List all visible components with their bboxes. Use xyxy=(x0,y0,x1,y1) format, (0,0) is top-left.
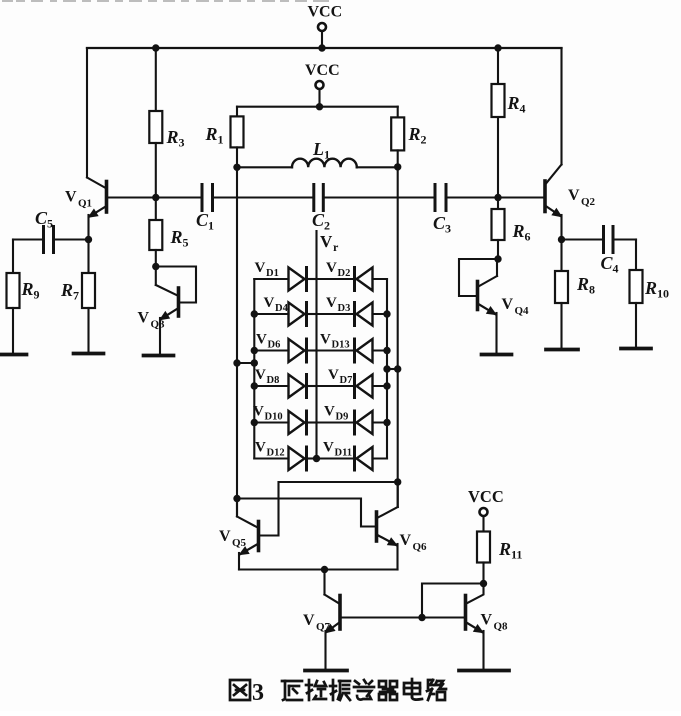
diode VD3 xyxy=(317,295,388,326)
diode VD12 xyxy=(254,440,316,471)
wire top supply rail xyxy=(87,47,562,49)
node R1 bottom junction xyxy=(233,164,240,171)
svg-text:Q6: Q6 xyxy=(413,541,428,553)
resistor R6 xyxy=(492,198,531,260)
diode VD9 xyxy=(317,404,388,435)
svg-text:V: V xyxy=(324,404,335,420)
svg-text:V: V xyxy=(320,332,331,348)
wire Vr control line xyxy=(317,231,340,459)
svg-text:V: V xyxy=(255,367,266,383)
wire label VQ7 xyxy=(303,612,331,633)
ground VQ8 xyxy=(459,669,509,673)
ground R7 xyxy=(74,352,104,356)
svg-text:V: V xyxy=(326,260,337,276)
svg-text:D1: D1 xyxy=(266,268,279,279)
VCC supply terminal 1 xyxy=(308,4,343,49)
svg-text:D12: D12 xyxy=(267,448,285,459)
diode VD1 xyxy=(254,260,316,291)
diode VD4 xyxy=(254,295,316,326)
resistor R2 xyxy=(391,107,426,151)
svg-text:V: V xyxy=(568,187,580,204)
svg-text:Q1: Q1 xyxy=(78,198,92,210)
svg-text:VCC: VCC xyxy=(305,62,340,79)
resistor R11 xyxy=(477,532,522,584)
node matrix right bus dots xyxy=(383,310,390,426)
ground VQ3 xyxy=(144,354,174,358)
node matrix left bus dots xyxy=(251,310,258,426)
capacitor C1 xyxy=(196,185,313,233)
VCC supply terminal 3 xyxy=(468,487,504,532)
capacitor C3 xyxy=(325,185,546,236)
transistor VQ8 xyxy=(466,584,484,671)
wire label VQ2 xyxy=(568,187,596,208)
inductor L1 xyxy=(237,139,398,167)
transistor VQ5 xyxy=(237,499,259,570)
wire label VQ4 xyxy=(502,296,530,317)
wire label VQ8 xyxy=(481,612,509,633)
svg-text:VCC: VCC xyxy=(308,4,343,21)
wire R1-R2 supply rail xyxy=(237,103,398,110)
svg-text:D10: D10 xyxy=(265,412,283,423)
wire label VQ5 xyxy=(219,528,247,549)
wire VQ6 base cross-coupling xyxy=(237,499,377,527)
resistor R8 xyxy=(555,240,595,350)
svg-text:V: V xyxy=(256,332,267,348)
wire VQ5-VQ6 emitter rail xyxy=(239,566,398,573)
resistor R1 xyxy=(205,107,244,148)
transistor VQ2 xyxy=(545,48,562,240)
ground R10 xyxy=(621,347,651,351)
node VQ1 emitter junction xyxy=(85,236,92,243)
svg-text:V: V xyxy=(255,260,266,276)
transistor VQ3 (diode-connected) xyxy=(156,267,196,356)
wire varactor matrix left bus xyxy=(253,279,255,459)
node right feed lower junction xyxy=(394,478,401,485)
diode VD6 xyxy=(254,332,316,363)
diode VD10 xyxy=(253,404,317,435)
resistor R4 xyxy=(492,48,526,198)
ground R8 xyxy=(546,348,578,352)
diode VD2 xyxy=(317,260,388,291)
svg-text:V: V xyxy=(65,189,77,206)
svg-text:V: V xyxy=(400,532,412,549)
capacitor C5 xyxy=(13,208,89,253)
svg-text:D11: D11 xyxy=(335,448,353,459)
svg-text:D3: D3 xyxy=(338,303,351,314)
ground R9 xyxy=(0,353,27,357)
svg-text:V: V xyxy=(255,440,266,456)
svg-text:Q4: Q4 xyxy=(515,305,530,317)
svg-text:Q7: Q7 xyxy=(316,621,331,633)
wire (cropped text fragments top edge) xyxy=(2,0,329,2)
wire VQ7-VQ8 base rail xyxy=(340,614,466,621)
resistor R9 xyxy=(7,240,40,355)
diode VD13 xyxy=(317,332,388,363)
capacitor C4 xyxy=(562,227,637,276)
wire VQ1 base to main line xyxy=(107,196,201,198)
svg-text:D13: D13 xyxy=(332,340,350,351)
svg-text:V: V xyxy=(323,440,334,456)
node R5 bottom junction xyxy=(152,263,159,270)
wire left feed tap xyxy=(233,359,258,366)
node R2 bottom junction xyxy=(394,163,401,170)
svg-text:V: V xyxy=(219,528,231,545)
wire label VQ1 xyxy=(65,189,92,210)
wire left varactor feed (R1 down) xyxy=(236,147,238,516)
transistor VQ7 xyxy=(325,570,341,671)
VCC supply terminal 2 xyxy=(305,62,340,107)
ground VQ7 xyxy=(305,669,347,673)
svg-text:VCC: VCC xyxy=(468,487,504,506)
diode VD8 xyxy=(254,367,316,398)
node R3 base junction xyxy=(152,194,159,201)
wire label VQ6 xyxy=(400,532,428,553)
diode VD11 xyxy=(317,440,388,471)
svg-text:D8: D8 xyxy=(267,375,280,386)
node matrix center bottom xyxy=(313,455,320,462)
svg-text:D4: D4 xyxy=(275,303,289,314)
svg-text:V: V xyxy=(253,404,264,420)
resistor R7 xyxy=(60,240,95,354)
svg-text:Q3: Q3 xyxy=(151,319,166,331)
resistor R5 xyxy=(149,198,188,267)
node VQ2 emitter junction xyxy=(558,236,565,243)
transistor VQ4 (diode-connected) xyxy=(459,259,498,355)
wire VQ8 diode connection xyxy=(422,584,484,618)
capacitor C2 xyxy=(312,185,330,233)
svg-text:V: V xyxy=(320,232,333,251)
node R4 base junction xyxy=(494,194,501,201)
node top rail junction dots xyxy=(152,44,502,51)
svg-text:Q5: Q5 xyxy=(232,537,247,549)
diode VD7 xyxy=(317,367,388,398)
wire caption 图3 压控振荡器电路 xyxy=(230,679,446,706)
wire VQ5 base cross-coupling xyxy=(260,482,398,536)
svg-text:V: V xyxy=(264,295,275,311)
wire right feed tap xyxy=(383,365,401,372)
svg-text:3: 3 xyxy=(252,680,264,706)
node left feed lower junction xyxy=(233,495,240,502)
svg-text:V: V xyxy=(326,295,337,311)
node R11 bottom junction xyxy=(480,580,487,587)
svg-text:D9: D9 xyxy=(336,412,349,423)
resistor R10 xyxy=(630,240,670,349)
svg-text:V: V xyxy=(303,612,315,629)
svg-text:Q8: Q8 xyxy=(494,621,509,633)
resistor R3 xyxy=(149,48,184,198)
ground VQ4 xyxy=(482,353,512,357)
wire label VQ3 xyxy=(138,310,166,331)
svg-text:D2: D2 xyxy=(338,268,351,279)
svg-text:D6: D6 xyxy=(268,340,281,351)
node R6 bottom junction xyxy=(494,255,501,262)
svg-text:D7: D7 xyxy=(340,375,353,386)
svg-text:V: V xyxy=(328,367,339,383)
transistor VQ1 xyxy=(87,48,107,240)
transistor VQ6 xyxy=(377,482,398,570)
wire right varactor feed (R2 down) xyxy=(397,150,399,507)
svg-text:Q2: Q2 xyxy=(581,196,596,208)
svg-text:V: V xyxy=(502,296,514,313)
wire varactor matrix right bus xyxy=(386,279,388,459)
svg-text:V: V xyxy=(481,612,493,629)
svg-text:r: r xyxy=(333,240,339,254)
svg-text:V: V xyxy=(138,310,150,327)
